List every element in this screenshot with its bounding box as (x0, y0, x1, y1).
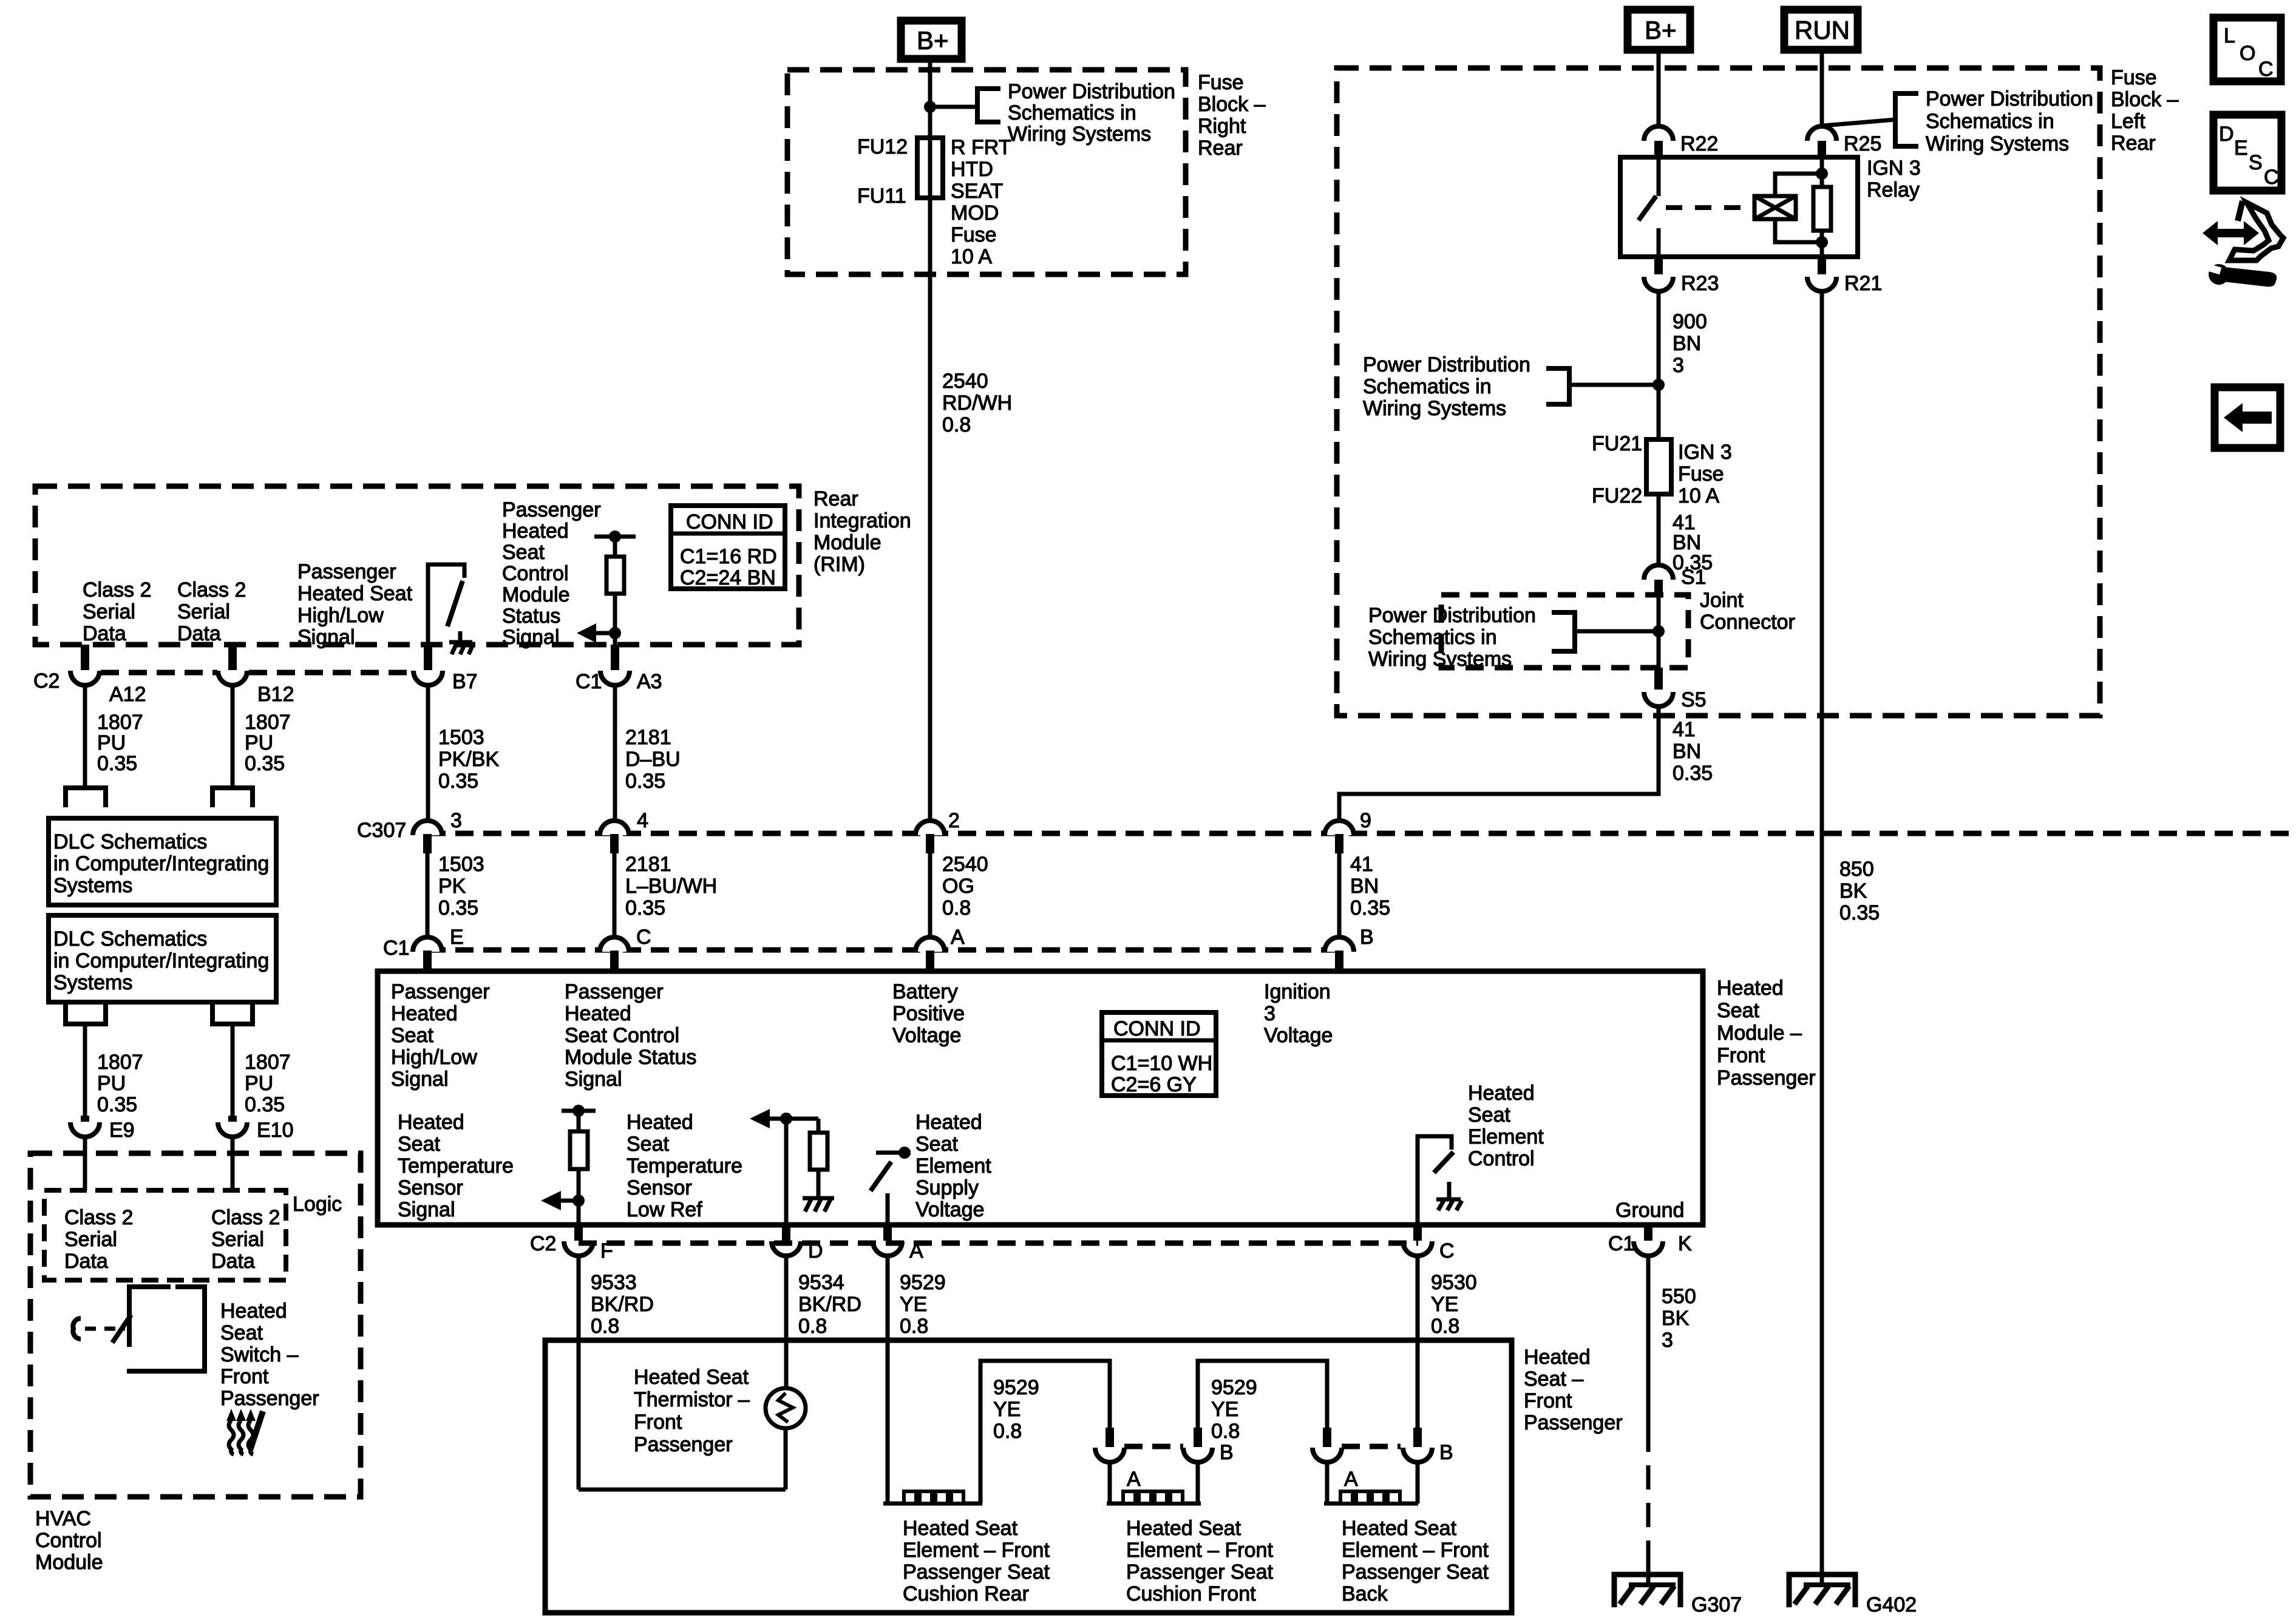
label heated seat temperature sensor low ref (627, 1111, 742, 1221)
svg-text:YE: YE (1431, 1293, 1458, 1316)
svg-text:O: O (2240, 42, 2255, 65)
node junction inside joint connector (1652, 625, 1665, 637)
wire bracket 4 to junction (1575, 629, 1659, 634)
power distribution bracket 1 (977, 89, 1000, 122)
svg-text:3: 3 (450, 809, 462, 832)
svg-text:Systems: Systems (53, 874, 132, 897)
svg-text:1807: 1807 (97, 1051, 143, 1074)
svg-text:Heated Seat: Heated Seat (1126, 1517, 1241, 1540)
heated seat switch contact (73, 1318, 81, 1339)
svg-text:Sensor: Sensor (627, 1176, 692, 1199)
svg-text:B7: B7 (452, 670, 478, 693)
svg-text:0.8: 0.8 (900, 1315, 928, 1338)
svg-text:Cushion Front: Cushion Front (1126, 1582, 1256, 1605)
svg-text:850: 850 (1839, 858, 1874, 881)
svg-text:Element – Front: Element – Front (1342, 1539, 1489, 1562)
svg-text:Temperature: Temperature (627, 1154, 742, 1178)
heated seat thermistor (766, 1388, 806, 1490)
power distribution bracket 2 (1895, 93, 1918, 146)
svg-text:Thermistor –: Thermistor – (634, 1388, 750, 1411)
svg-text:FU11: FU11 (857, 185, 906, 208)
svg-text:Seat: Seat (627, 1133, 669, 1156)
connector C307 pin 4 (600, 809, 648, 853)
label heated seat element supply voltage (915, 1111, 991, 1221)
svg-text:C1=10 WH: C1=10 WH (1111, 1052, 1212, 1075)
wire B+ to relay pin R22 (1657, 50, 1661, 126)
heated seat element cushion front (1107, 1461, 1201, 1503)
svg-text:Serial: Serial (177, 600, 230, 623)
svg-text:Back: Back (1342, 1582, 1388, 1605)
connector R21 (1807, 257, 1882, 295)
svg-text:9529: 9529 (993, 1376, 1039, 1399)
svg-text:Temperature: Temperature (398, 1154, 514, 1178)
label 1807 PU 0.35 (A12) (97, 711, 143, 775)
svg-text:Joint: Joint (1700, 589, 1744, 612)
svg-text:550: 550 (1662, 1285, 1696, 1308)
svg-text:Ground: Ground (1615, 1199, 1684, 1222)
svg-text:B: B (1220, 1441, 1234, 1464)
svg-text:L–BU/WH: L–BU/WH (625, 875, 717, 898)
label heated seat module front passenger (1717, 977, 1816, 1090)
low ref internal ground (803, 1198, 834, 1212)
svg-text:0.35: 0.35 (625, 897, 665, 920)
svg-text:R21: R21 (1844, 272, 1882, 295)
plug bracket above DLC box 1 right (212, 788, 253, 807)
svg-text:0.8: 0.8 (1431, 1315, 1459, 1338)
svg-text:(RIM): (RIM) (813, 553, 865, 576)
svg-text:Passenger: Passenger (1524, 1411, 1623, 1434)
svg-text:MOD: MOD (951, 202, 999, 225)
svg-text:Logic: Logic (293, 1193, 342, 1216)
wire thermistor loop (579, 1488, 786, 1492)
svg-text:Data: Data (211, 1250, 255, 1273)
label power distribution schematics 1 (1008, 80, 1175, 146)
svg-text:FU12: FU12 (857, 135, 908, 158)
wire E10 into HVAC (231, 1136, 235, 1190)
wire 1807 PU 0.35 DLC to E9 (83, 1024, 87, 1116)
label 2181 L-BU/WH 0.35 (625, 853, 717, 920)
svg-text:10 A: 10 A (1678, 484, 1719, 507)
svg-text:Data: Data (64, 1250, 108, 1273)
svg-text:Element: Element (1468, 1125, 1544, 1148)
svg-text:OG: OG (942, 875, 974, 898)
heated seat element cushion rear (883, 1491, 982, 1503)
svg-text:0.35: 0.35 (245, 752, 285, 775)
svg-text:Integration: Integration (813, 509, 911, 532)
plug bracket below DLC box 2 left (66, 1005, 106, 1024)
svg-text:3: 3 (1673, 354, 1684, 377)
label fuse block left rear (2111, 66, 2179, 155)
label passenger heated seat high/low signal (module) (391, 980, 490, 1091)
DESC nav box (2213, 115, 2281, 191)
svg-text:Data: Data (83, 622, 126, 645)
label heated seat element cushion front (1126, 1517, 1273, 1605)
svg-text:0.8: 0.8 (942, 413, 971, 436)
svg-text:Seat Control: Seat Control (565, 1024, 679, 1047)
svg-text:Power Distribution: Power Distribution (1926, 87, 2093, 110)
connector C2 pin C (1403, 1225, 1455, 1263)
label 41 BN 0.35 lower (1673, 718, 1713, 785)
svg-text:Control: Control (502, 562, 569, 585)
svg-text:0.8: 0.8 (798, 1315, 827, 1338)
svg-text:Passenger: Passenger (220, 1387, 319, 1410)
svg-text:Heated: Heated (1468, 1082, 1535, 1105)
label 1503 PK/BK 0.35 (438, 726, 499, 793)
label heated seat element cushion rear (903, 1517, 1050, 1605)
connector R22 (1644, 126, 1718, 157)
svg-text:D–BU: D–BU (625, 748, 681, 771)
label passenger heated seat high/low signal (RIM) (297, 560, 413, 649)
svg-text:0.8: 0.8 (591, 1315, 619, 1338)
svg-text:9533: 9533 (591, 1271, 637, 1294)
CONN ID box RIM (671, 506, 785, 589)
svg-text:0.35: 0.35 (438, 770, 478, 793)
wire B+ to fuse FU12 (928, 63, 932, 139)
svg-text:CONN ID: CONN ID (686, 510, 773, 534)
svg-text:4: 4 (637, 809, 648, 832)
svg-text:Module: Module (502, 583, 570, 606)
svg-text:C1: C1 (1608, 1232, 1634, 1255)
connector C1 pin B (1325, 926, 1374, 971)
svg-text:Power Distribution: Power Distribution (1363, 353, 1530, 376)
label class 2 serial data 2 (HVAC) (211, 1206, 280, 1273)
label power distribution schematics 4 (1368, 604, 1536, 671)
wire 2181 D-BU 0.35 A3 to pin 4 (613, 684, 617, 821)
rear integration module dashed box (35, 486, 799, 645)
svg-text:Cushion Rear: Cushion Rear (903, 1582, 1029, 1605)
svg-text:E9: E9 (109, 1119, 135, 1142)
label heated seat temperature sensor signal (398, 1111, 514, 1221)
wire 1807 PU 0.35 B12 to DLC (231, 684, 235, 788)
svg-text:Connector: Connector (1700, 611, 1795, 634)
svg-text:Power Distribution: Power Distribution (1368, 604, 1536, 627)
svg-text:PU: PU (97, 731, 126, 754)
wire 2540 RD/WH 0.8 (B+ feed down to pin 2) (928, 274, 932, 821)
wire 9533 BK/RD 0.8 (577, 1255, 581, 1490)
svg-text:F: F (600, 1239, 613, 1263)
svg-text:SEAT: SEAT (951, 180, 1003, 203)
svg-text:S: S (2249, 151, 2263, 174)
svg-text:Voltage: Voltage (915, 1198, 984, 1221)
label power distribution schematics 2 (1926, 87, 2093, 155)
label 1807 PU 0.35 (E10) (245, 1051, 291, 1116)
ground G307 (1614, 1575, 1742, 1616)
svg-text:High/Low: High/Low (391, 1046, 477, 1069)
heated seat icon (226, 1409, 263, 1454)
label 1807 PU 0.35 (E9) (97, 1051, 143, 1116)
svg-text:Switch –: Switch – (220, 1343, 299, 1366)
svg-text:Block –: Block – (1198, 93, 1266, 116)
svg-text:HTD: HTD (951, 158, 993, 181)
svg-text:D: D (2219, 123, 2234, 146)
svg-text:Element: Element (915, 1154, 991, 1178)
label R FRT HTD SEAT MOD Fuse 10 A (951, 136, 1011, 268)
heated seat switch dashed link (85, 1327, 125, 1331)
svg-text:3: 3 (1662, 1329, 1673, 1352)
svg-text:Positive: Positive (892, 1002, 965, 1025)
svg-text:BK/RD: BK/RD (798, 1293, 861, 1316)
svg-text:Voltage: Voltage (1264, 1024, 1333, 1047)
svg-text:2540: 2540 (942, 370, 988, 393)
label power distribution schematics 3 (1363, 353, 1530, 420)
connector S1 (1644, 565, 1707, 597)
label IGN 3 Relay (1867, 157, 1921, 202)
node junction on B+ feed (924, 101, 936, 113)
svg-text:Signal: Signal (565, 1068, 622, 1091)
svg-text:Passenger: Passenger (565, 980, 664, 1003)
wire 550 BK 3 to G307 (1646, 1255, 1651, 1575)
svg-text:C: C (636, 926, 651, 949)
svg-text:PK/BK: PK/BK (438, 748, 499, 771)
svg-text:Passenger: Passenger (391, 980, 490, 1003)
wire 2181 L-BU/WH 0.35 (613, 853, 617, 937)
svg-text:PU: PU (245, 1072, 273, 1095)
back arrow nav box (2215, 387, 2280, 448)
svg-text:Front: Front (220, 1365, 269, 1388)
wire 41 BN 0.35 S5 down and left to pin 9 (1339, 705, 1659, 821)
label 41 BN 0.35 (pin 9) (1350, 853, 1390, 920)
connector C307 pin 9 (1325, 809, 1371, 853)
svg-text:Rear: Rear (1198, 137, 1243, 160)
wire RUN to relay pin R25 (1820, 50, 1824, 126)
svg-text:Seat –: Seat – (1524, 1368, 1583, 1391)
dashed link pair 2 (1342, 1444, 1401, 1449)
svg-text:D: D (808, 1239, 823, 1263)
svg-text:Fuse: Fuse (951, 223, 997, 246)
connector S5 (1644, 668, 1707, 711)
wire 41 BN 0.35 fuse to S1 (1657, 494, 1661, 564)
RIM status signal arrow (577, 623, 621, 643)
svg-text:Signal: Signal (297, 626, 355, 649)
label class 2 serial data 2 (RIM) (177, 578, 246, 645)
svg-text:B12: B12 (257, 683, 294, 706)
svg-text:Fuse: Fuse (2111, 66, 2157, 89)
connector pair 2 pin A (1313, 1428, 1358, 1491)
svg-text:0.35: 0.35 (1350, 897, 1390, 920)
LOC nav box (2213, 18, 2281, 81)
power distribution bracket 4 (1552, 612, 1575, 651)
connector pair 1 pin B (1183, 1428, 1234, 1464)
svg-text:Module Status: Module Status (565, 1046, 696, 1069)
plug bracket below DLC box 2 right (212, 1005, 253, 1024)
svg-text:Front: Front (1524, 1389, 1572, 1412)
svg-text:Signal: Signal (398, 1198, 455, 1221)
label rear integration module (813, 487, 911, 576)
svg-text:9530: 9530 (1431, 1271, 1477, 1294)
svg-text:Class 2: Class 2 (177, 578, 246, 602)
logic dashed box (44, 1190, 286, 1280)
label 1503 PK 0.35 (438, 853, 484, 920)
connector C1 pin A (915, 926, 965, 971)
label passenger heated seat control module status signal (module) (565, 980, 696, 1091)
svg-text:1807: 1807 (245, 1051, 291, 1074)
wire S1 to S5 through joint connector (1657, 597, 1661, 668)
svg-text:Serial: Serial (211, 1228, 264, 1251)
svg-text:Schematics in: Schematics in (1368, 626, 1497, 649)
B+ terminal box (top center) (901, 21, 962, 59)
label 550 BK 3 (1662, 1285, 1696, 1352)
svg-text:K: K (1678, 1232, 1692, 1255)
svg-text:Passenger Seat: Passenger Seat (1342, 1561, 1489, 1584)
connector C1 pin K (1608, 1225, 1692, 1256)
label heated seat element control (1468, 1082, 1544, 1170)
label 850 BK 0.35 (1839, 858, 1880, 924)
C1 connector row dashed line (module) (427, 947, 1339, 953)
svg-text:10 A: 10 A (951, 245, 992, 268)
svg-text:C2=6 GY: C2=6 GY (1111, 1073, 1197, 1096)
svg-text:C: C (2264, 166, 2279, 189)
wire 1503 PK/BK 0.35 B7 to pin 3 (426, 684, 430, 821)
heated seat box (545, 1340, 1512, 1613)
svg-text:BK: BK (1662, 1307, 1690, 1330)
label 2540 RD/WH 0.8 (942, 370, 1012, 436)
svg-text:IGN 3: IGN 3 (1867, 157, 1921, 180)
svg-text:DLC Schematics: DLC Schematics (53, 830, 207, 853)
svg-text:Passenger Seat: Passenger Seat (903, 1561, 1050, 1584)
svg-text:Module: Module (813, 531, 881, 554)
connector R25 (1807, 126, 1881, 157)
svg-text:2540: 2540 (942, 853, 988, 876)
svg-text:RD/WH: RD/WH (942, 392, 1012, 415)
svg-text:Seat: Seat (1717, 999, 1759, 1022)
RUN terminal box (1784, 10, 1858, 50)
label 9534 BK/RD 0.8 (798, 1271, 861, 1338)
svg-text:in Computer/Integrating: in Computer/Integrating (53, 949, 269, 972)
svg-text:Module –: Module – (1717, 1022, 1802, 1045)
connector B7 (413, 645, 478, 693)
svg-text:Relay: Relay (1867, 178, 1920, 202)
svg-text:Class 2: Class 2 (83, 578, 151, 602)
ground G402 (1789, 1575, 1917, 1616)
svg-text:G402: G402 (1866, 1593, 1917, 1616)
label 9529 YE 0.8 (loop 2) (1211, 1376, 1257, 1443)
svg-text:Class 2: Class 2 (64, 1206, 133, 1229)
svg-text:2: 2 (948, 809, 960, 832)
fuse block right rear dashed box (787, 70, 1186, 274)
svg-text:1503: 1503 (438, 726, 484, 749)
label 2540 OG 0.8 (942, 853, 988, 920)
svg-text:in Computer/Integrating: in Computer/Integrating (53, 852, 269, 875)
element supply voltage switch (871, 1147, 911, 1225)
wire E9 into HVAC (83, 1136, 87, 1190)
svg-text:YE: YE (900, 1293, 927, 1316)
connector C307 pin 3 (413, 809, 462, 853)
svg-text:Wiring Systems: Wiring Systems (1363, 397, 1506, 420)
svg-text:0.35: 0.35 (97, 1093, 137, 1116)
svg-text:B+: B+ (917, 26, 949, 55)
svg-text:Serial: Serial (83, 600, 135, 623)
svg-text:E10: E10 (257, 1119, 294, 1142)
svg-text:1807: 1807 (97, 711, 143, 734)
connector pair 1 pin A (1095, 1428, 1141, 1491)
svg-text:Left: Left (2111, 110, 2145, 133)
svg-text:A: A (1127, 1468, 1141, 1491)
connector C307 pin 2 (915, 809, 960, 853)
joint connector dashed box (1441, 595, 1688, 668)
svg-text:Heated: Heated (1524, 1346, 1591, 1369)
svg-text:Heated: Heated (627, 1111, 693, 1134)
svg-text:Seat: Seat (502, 541, 545, 564)
svg-text:Seat: Seat (391, 1024, 433, 1047)
svg-text:Heated Seat: Heated Seat (297, 582, 413, 605)
svg-text:BN: BN (1673, 740, 1701, 763)
svg-text:YE: YE (993, 1398, 1021, 1421)
svg-text:R22: R22 (1680, 132, 1718, 155)
svg-text:9529: 9529 (1211, 1376, 1257, 1399)
svg-text:Low Ref: Low Ref (627, 1198, 702, 1221)
fuse block left rear dashed box (1337, 68, 2100, 716)
connector E9 (70, 1116, 135, 1142)
connector A12 (70, 645, 146, 706)
svg-text:Element – Front: Element – Front (903, 1539, 1050, 1562)
svg-text:IGN 3: IGN 3 (1678, 441, 1732, 464)
svg-text:2181: 2181 (625, 726, 671, 749)
svg-text:0.8: 0.8 (942, 897, 971, 920)
svg-text:Front: Front (634, 1411, 682, 1434)
svg-text:Right: Right (1198, 115, 1246, 138)
svg-text:Voltage: Voltage (892, 1024, 961, 1047)
svg-text:Rear: Rear (2111, 132, 2156, 155)
wire 9530 YE 0.8 pin C (1416, 1255, 1420, 1447)
svg-text:Fuse: Fuse (1678, 463, 1724, 486)
svg-text:C1=16 RD: C1=16 RD (680, 545, 777, 568)
label 9530 YE 0.8 (1431, 1271, 1477, 1338)
svg-text:Data: Data (177, 622, 221, 645)
svg-text:PU: PU (97, 1072, 126, 1095)
wire 41 BN 0.35 to pin B (1337, 853, 1342, 937)
svg-text:Control: Control (1468, 1147, 1535, 1170)
svg-text:G307: G307 (1691, 1593, 1742, 1616)
label class 2 serial data 1 (RIM) (83, 578, 151, 645)
connector A3 with C1 label (576, 645, 662, 693)
label 1807 PU 0.35 (B12) (245, 711, 291, 775)
relay internal resistor (1813, 157, 1831, 257)
svg-text:C: C (2258, 58, 2274, 81)
wrench and arrow icon (2203, 201, 2283, 286)
svg-text:A: A (909, 1239, 923, 1263)
svg-text:Heated: Heated (1717, 977, 1784, 1000)
svg-text:E: E (2234, 137, 2248, 160)
svg-text:Wiring Systems: Wiring Systems (1008, 123, 1151, 146)
svg-text:RUN: RUN (1795, 16, 1850, 44)
heated seat switch blade and frame (112, 1287, 205, 1371)
label heated seat front passenger (1524, 1346, 1623, 1434)
label passenger heated seat control module status signal (RIM) (502, 498, 601, 649)
svg-text:Wiring Systems: Wiring Systems (1368, 648, 1512, 671)
svg-text:9534: 9534 (798, 1271, 844, 1294)
svg-text:Control: Control (35, 1529, 102, 1552)
svg-text:High/Low: High/Low (297, 604, 384, 627)
label 9529 YE 0.8 (pin A) (900, 1271, 946, 1338)
svg-text:Heated: Heated (220, 1300, 287, 1323)
svg-text:C2: C2 (33, 670, 59, 693)
wire 9529 YE 0.8 pin A (886, 1255, 890, 1503)
svg-text:C1: C1 (383, 937, 409, 960)
label fuse block right rear (1198, 71, 1266, 160)
svg-text:Passenger: Passenger (1717, 1066, 1816, 1090)
svg-text:Seat: Seat (398, 1133, 440, 1156)
svg-text:BK: BK (1839, 880, 1867, 903)
C2 connector row dashed line (module bottom) (579, 1241, 1418, 1246)
svg-text:Supply: Supply (915, 1176, 979, 1199)
svg-text:Schematics in: Schematics in (1008, 101, 1136, 124)
svg-text:A: A (1344, 1468, 1358, 1491)
svg-text:Heated: Heated (398, 1111, 464, 1134)
connector C1 pin C (600, 926, 651, 971)
connector C2 pin A (873, 1225, 923, 1263)
svg-text:1503: 1503 (438, 853, 484, 876)
label joint connector (1700, 589, 1795, 634)
